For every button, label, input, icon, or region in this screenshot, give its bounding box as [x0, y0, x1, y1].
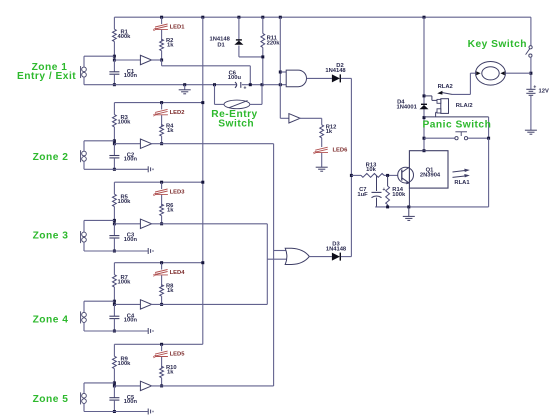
svg-text:D1: D1: [217, 42, 225, 48]
svg-text:1k: 1k: [167, 42, 174, 48]
svg-text:100k: 100k: [118, 280, 132, 286]
svg-text:Entry / Exit: Entry / Exit: [17, 71, 76, 82]
svg-text:LED6: LED6: [333, 148, 349, 154]
svg-text:10k: 10k: [366, 167, 376, 173]
svg-text:100n: 100n: [124, 317, 138, 323]
svg-text:100k: 100k: [118, 199, 132, 205]
svg-text:Zone 5: Zone 5: [33, 394, 69, 405]
svg-text:+: +: [533, 84, 536, 90]
svg-text:1k: 1k: [326, 129, 333, 135]
svg-text:Zone 4: Zone 4: [33, 314, 69, 325]
svg-text:Zone 3: Zone 3: [33, 230, 69, 241]
svg-text:100k: 100k: [118, 119, 132, 125]
svg-text:+: +: [244, 85, 247, 91]
svg-text:Zone 2: Zone 2: [33, 152, 69, 163]
svg-text:1k: 1k: [167, 207, 174, 213]
svg-text:LED2: LED2: [170, 110, 185, 116]
svg-text:100n: 100n: [124, 157, 138, 163]
svg-text:RLA1: RLA1: [454, 180, 470, 186]
svg-text:100n: 100n: [124, 73, 138, 79]
svg-text:+: +: [383, 187, 386, 193]
svg-text:Key Switch: Key Switch: [468, 39, 527, 50]
svg-text:LED5: LED5: [170, 352, 186, 358]
svg-text:1uF: 1uF: [357, 192, 368, 198]
svg-text:100u: 100u: [228, 75, 242, 81]
svg-text:LED3: LED3: [170, 190, 186, 196]
svg-text:1N4001: 1N4001: [396, 104, 417, 110]
svg-text:100k: 100k: [118, 361, 132, 367]
svg-text:220k: 220k: [267, 40, 281, 46]
svg-text:LED4: LED4: [170, 270, 186, 276]
svg-text:100n: 100n: [124, 237, 138, 243]
svg-text:1N4148: 1N4148: [326, 247, 347, 253]
svg-text:100n: 100n: [124, 399, 138, 405]
svg-text:1k: 1k: [167, 128, 174, 134]
svg-text:Panic Switch: Panic Switch: [422, 120, 491, 131]
svg-text:LED1: LED1: [170, 25, 186, 31]
svg-text:RLA/2: RLA/2: [456, 103, 473, 109]
svg-text:400k: 400k: [118, 34, 132, 40]
svg-text:1N4148: 1N4148: [325, 68, 346, 74]
svg-text:12V: 12V: [539, 88, 549, 94]
svg-text:1k: 1k: [167, 288, 174, 294]
svg-text:100k: 100k: [392, 192, 406, 198]
svg-text:RLA2: RLA2: [438, 84, 453, 90]
svg-text:1k: 1k: [167, 370, 174, 376]
svg-text:2N3904: 2N3904: [420, 173, 441, 179]
svg-text:Switch: Switch: [218, 119, 254, 130]
